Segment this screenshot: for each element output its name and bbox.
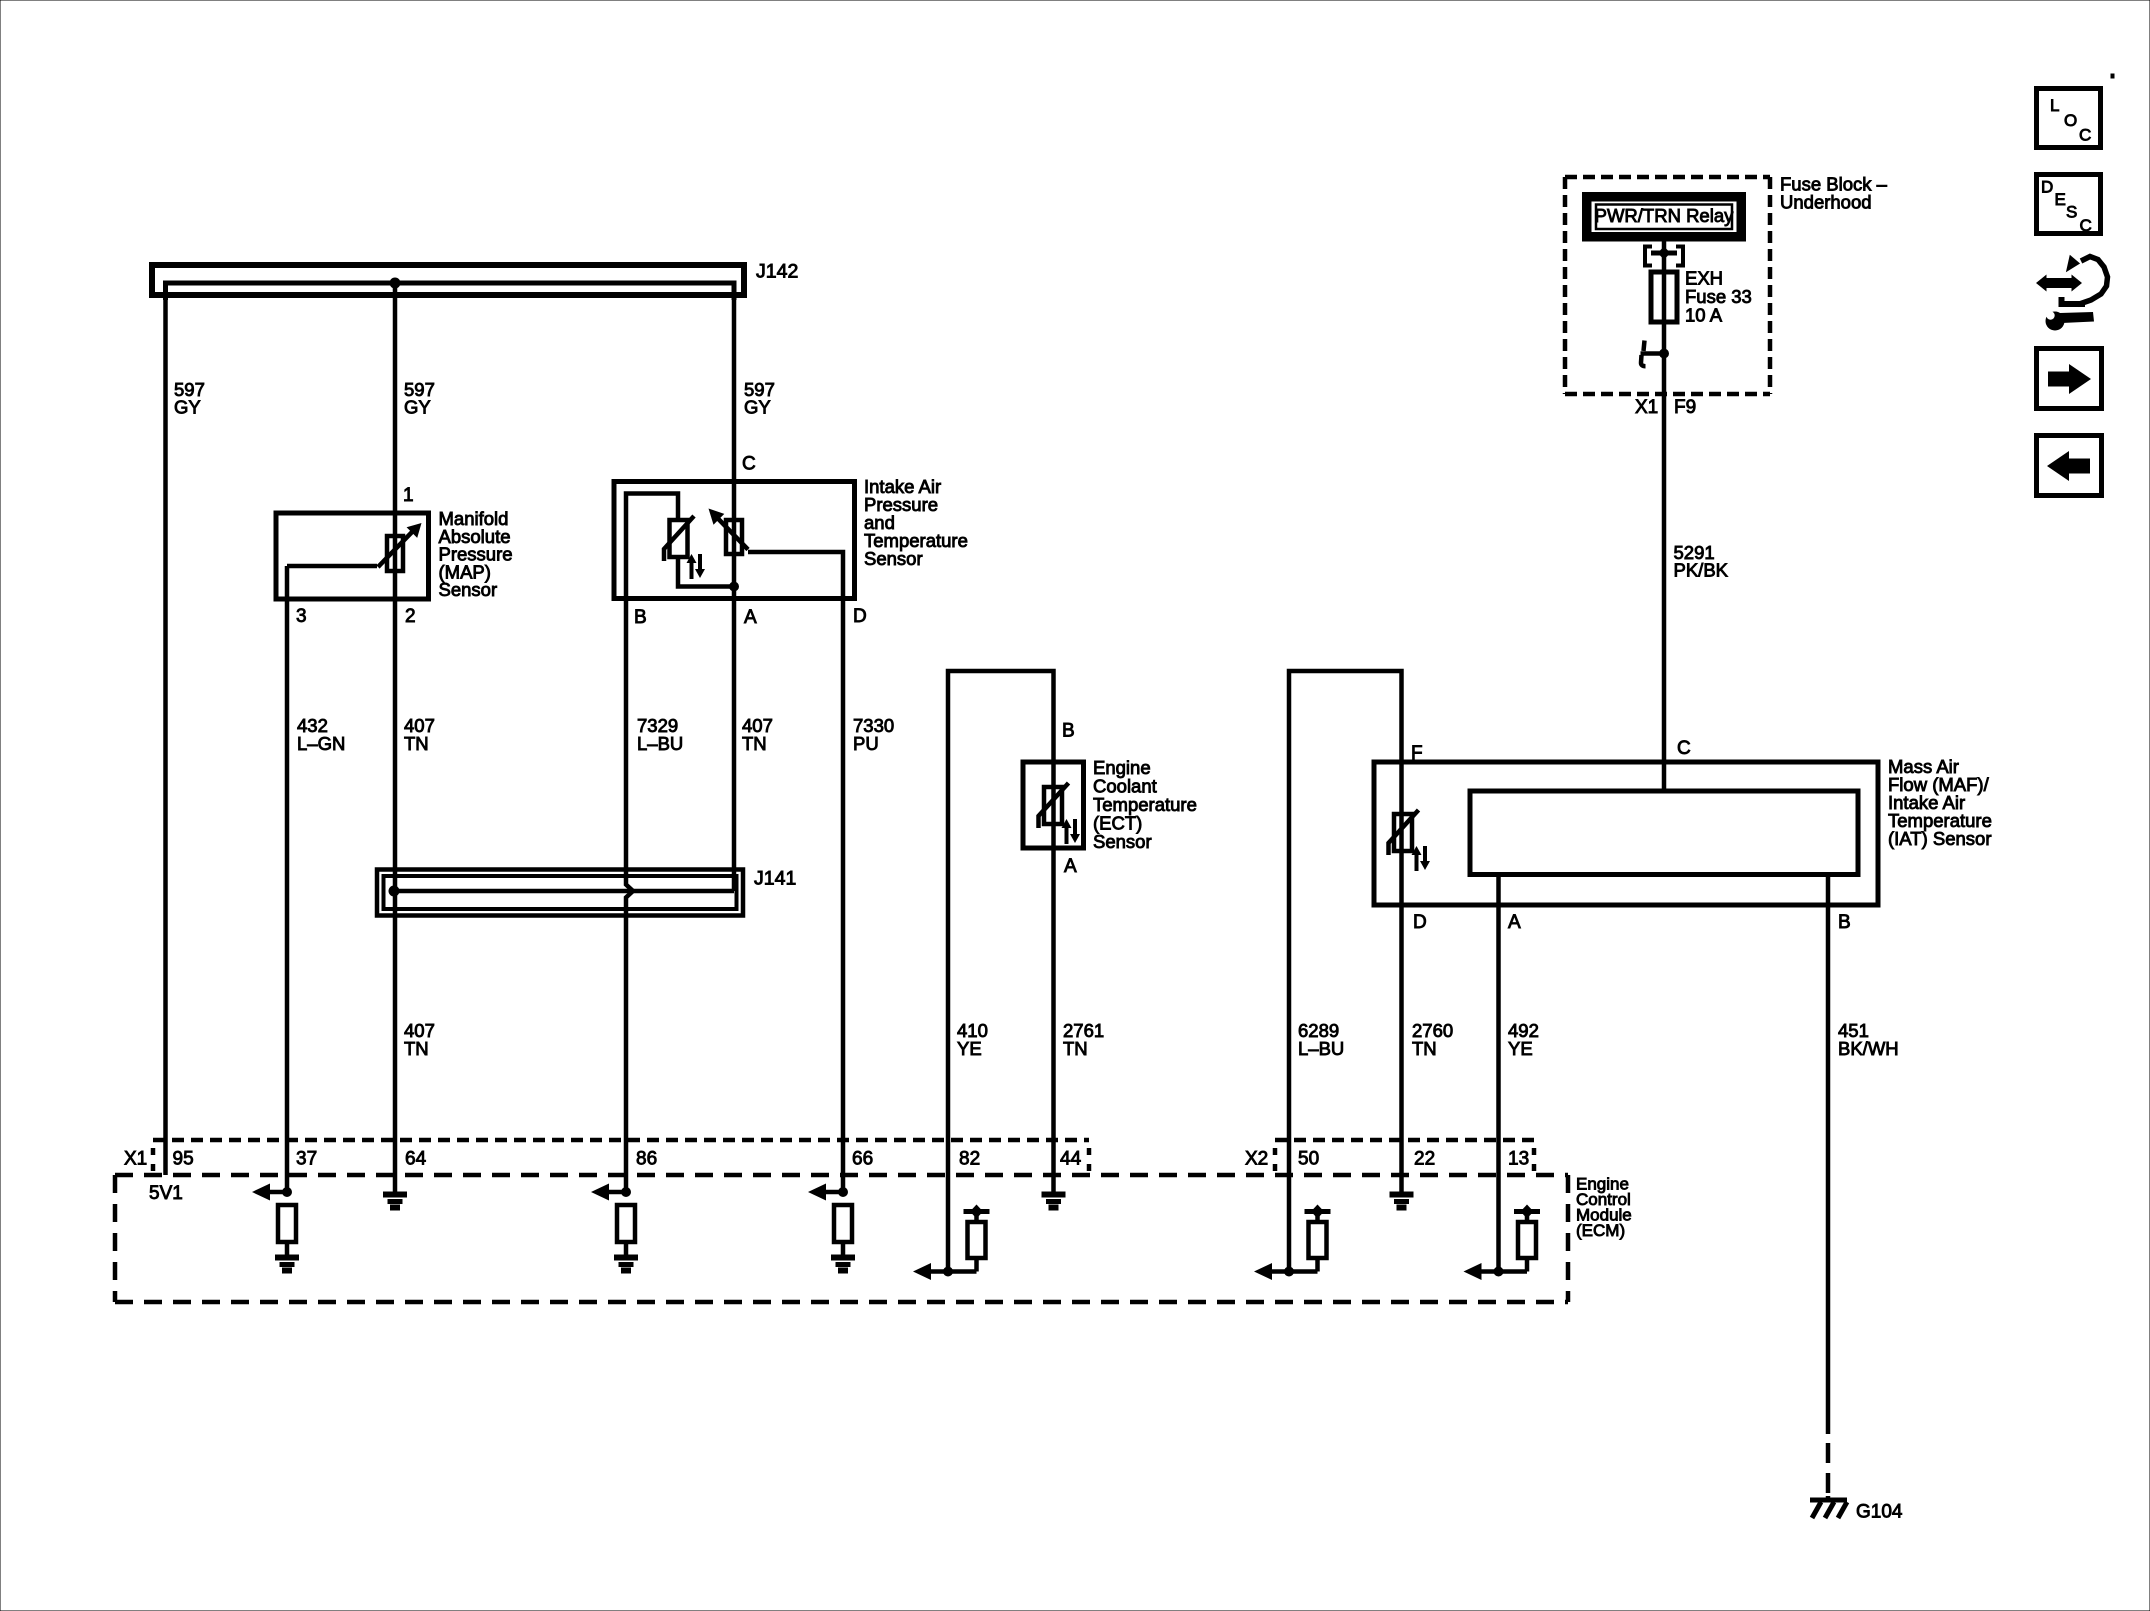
wire label 407 TN lower	[404, 1020, 435, 1059]
pin number 86	[636, 1149, 657, 1170]
MAP sensor box	[276, 513, 429, 599]
wire label 432 L-GN	[297, 715, 345, 754]
wire label 597 GY left	[174, 379, 205, 418]
svg-text:44: 44	[1060, 1149, 1082, 1170]
ECM ground X1-44	[1042, 1192, 1065, 1210]
pin label A (ECT)	[1064, 856, 1077, 877]
wire 410 YE / 2761 TN (ECM X1-82 loop to ECT sensor pin B, pin A to X1-44)	[948, 671, 1054, 1272]
svg-text:37: 37	[296, 1149, 317, 1170]
icon vehicle with arrow and wrench	[2036, 255, 2108, 331]
wire label 451 BK/WH	[1838, 1020, 1899, 1059]
wire 7329 L-BU (intake thermistor / pin B to ECM X1-86, hops over J141 bus)	[626, 494, 678, 1193]
connector label X1	[124, 1149, 147, 1170]
wire label 410 YE	[957, 1020, 988, 1059]
MAP sensor pressure transducer symbol	[287, 523, 422, 571]
ECM input X1-86 (arrow, resistor, ground)	[591, 1184, 638, 1274]
svg-text:J142: J142	[756, 261, 798, 283]
ECM annotation	[1576, 1175, 1632, 1241]
pin number 50	[1298, 1149, 1319, 1170]
svg-text:B: B	[1062, 721, 1075, 742]
ECM connector X2 dotted strip	[1275, 1140, 1534, 1171]
svg-text:A: A	[1508, 912, 1521, 933]
wire label 7329 L-BU	[637, 715, 683, 754]
wire label 407 TN (intake A)	[742, 715, 773, 754]
svg-text:D: D	[853, 606, 867, 627]
pin number 44	[1060, 1149, 1082, 1170]
pin number 22	[1414, 1149, 1435, 1170]
wire 432 L-GN (MAP pin 3 to ECM X1-37)	[285, 566, 290, 1192]
pin number 64	[405, 1149, 427, 1170]
fuse block label	[1780, 174, 1888, 213]
svg-text:86: 86	[636, 1149, 657, 1170]
wire label 2760 TN	[1412, 1020, 1453, 1059]
svg-text:597GY: 597GY	[174, 379, 205, 418]
Intake Air Pressure and Temperature sensor box	[614, 482, 855, 599]
connector label X1 F9	[1635, 397, 1696, 418]
intake sensor internal wire (thermistor bottom to A junction)	[678, 557, 734, 587]
ECM input X2-13 (arrow, pull-up resistor)	[1464, 1205, 1541, 1281]
icon back arrow box	[2037, 436, 2102, 496]
relay output terminal symbol	[1645, 247, 1683, 266]
svg-text:22: 22	[1414, 1149, 1435, 1170]
MAF/IAT sensor outer box	[1374, 762, 1878, 905]
intake sensor annotation	[864, 476, 968, 569]
svg-text:A: A	[1064, 856, 1077, 877]
svg-text:82: 82	[959, 1149, 980, 1170]
svg-text:EngineControlModule(ECM): EngineControlModule(ECM)	[1576, 1175, 1632, 1241]
connector terminal symbol at fuse block exit	[1641, 341, 1660, 367]
wire 597 GY (J142 to ECM X1-95)	[163, 283, 168, 1175]
svg-text:D: D	[2041, 178, 2053, 197]
ECM ground X1-64	[384, 1192, 407, 1210]
svg-text:A: A	[744, 607, 757, 628]
pin label 2 (MAP)	[405, 606, 416, 627]
MAF/IAT sensor annotation	[1888, 756, 1992, 849]
pin label A (MAF)	[1508, 912, 1521, 933]
wire 7330 PU (intake pressure sensor / pin D to ECM X1-66)	[748, 552, 843, 1192]
svg-text:95: 95	[173, 1149, 194, 1170]
wire label 5291 PK/BK	[1674, 542, 1729, 581]
svg-text:597GY: 597GY	[744, 379, 775, 418]
pin number 37	[296, 1149, 317, 1170]
icon speck	[2111, 74, 2114, 78]
ECM input X1-82 (arrow, pull-up resistor)	[913, 1205, 990, 1281]
junction dot on J142 bus	[390, 278, 401, 289]
pin number 13	[1508, 1149, 1529, 1170]
svg-text:66: 66	[852, 1149, 873, 1170]
wire 451 BK/WH (MAF pin B to ground G104)	[1826, 875, 1831, 1501]
connector label X2	[1245, 1149, 1268, 1170]
ECM dashed box	[115, 1175, 1568, 1302]
pin label B (ECT)	[1062, 721, 1075, 742]
wire label 597 GY right	[744, 379, 775, 418]
pin label 3 (MAP)	[296, 606, 307, 627]
intake sensor thermistor symbol	[664, 516, 694, 561]
svg-text:O: O	[2064, 111, 2077, 130]
wire 5291 inside fuse block (relay to MAF pin C)	[1662, 242, 1667, 792]
splice pack J142	[152, 261, 798, 301]
ECM input X2-50 (arrow, pull-up resistor)	[1254, 1205, 1331, 1281]
svg-text:S: S	[2066, 203, 2077, 222]
junction dot at intake sensor pin A node	[729, 582, 739, 592]
icon forward arrow box	[2037, 349, 2102, 409]
svg-text:J141: J141	[754, 868, 796, 890]
intake sensor thermistor arrows	[687, 554, 706, 579]
svg-text:B: B	[1838, 912, 1851, 933]
pin label D (intake)	[853, 606, 867, 627]
pin label F (MAF)	[1411, 743, 1423, 764]
pin label A (intake)	[744, 607, 757, 628]
icon DESC box	[2037, 175, 2101, 236]
pin label D (MAF)	[1413, 912, 1427, 933]
ECM input X1-66 (arrow, resistor, ground)	[808, 1184, 855, 1274]
MAF sensor thermistor symbol	[1389, 810, 1419, 855]
svg-text:597GY: 597GY	[404, 379, 435, 418]
svg-text:2: 2	[405, 606, 416, 627]
wire label 2761 TN	[1063, 1020, 1104, 1059]
junction dot on J141 bus	[389, 886, 400, 897]
svg-text:X1: X1	[1635, 397, 1658, 418]
svg-text:C: C	[742, 454, 756, 475]
svg-text:L: L	[2050, 96, 2059, 115]
wire 597 GY / 407 TN (J142 to Intake sensor pin C, pin A to J141)	[732, 283, 737, 891]
pin number 66	[852, 1149, 873, 1170]
junction dot at fuse block exit	[1659, 349, 1669, 359]
ground G104 chassis ground symbol	[1810, 1500, 1847, 1518]
ECT sensor thermistor arrows	[1062, 819, 1081, 844]
pin number 95	[173, 1149, 194, 1170]
net label 5V1	[149, 1183, 183, 1204]
svg-text:5V1: 5V1	[149, 1183, 183, 1204]
svg-text:1: 1	[403, 485, 414, 506]
svg-text:PWR/TRN Relay: PWR/TRN Relay	[1595, 205, 1735, 226]
pin label C (MAF)	[1677, 738, 1691, 759]
intake sensor pressure transducer symbol	[709, 509, 749, 555]
ECM connector X1 dotted strip	[153, 1140, 1089, 1171]
fuse label	[1685, 268, 1752, 326]
svg-text:13: 13	[1508, 1149, 1529, 1170]
svg-text:F9: F9	[1674, 397, 1696, 418]
wire 597 GY / 407 TN (J142 through MAP sensor to J141 and ECM X1-64)	[393, 283, 398, 1192]
wire label 407 TN upper	[404, 715, 435, 754]
svg-text:E: E	[2055, 190, 2066, 209]
pin label 1 (MAP)	[403, 485, 414, 506]
fuse block dashed box	[1565, 177, 1770, 394]
svg-text:G104: G104	[1856, 1502, 1903, 1523]
svg-text:Fuse Block –Underhood: Fuse Block –Underhood	[1780, 174, 1888, 213]
svg-text:6289L–BU: 6289L–BU	[1298, 1020, 1344, 1059]
svg-text:C: C	[1677, 738, 1691, 759]
pin number 82	[959, 1149, 980, 1170]
svg-text:D: D	[1413, 912, 1427, 933]
svg-text:B: B	[634, 607, 647, 628]
wire label 597 GY middle	[404, 379, 435, 418]
MAF/IAT sensor inner module box	[1470, 791, 1858, 875]
fuse EXH Fuse 33 10A symbol	[1651, 272, 1677, 322]
svg-text:3: 3	[296, 606, 307, 627]
ECM input X1-37 (arrow, resistor, ground)	[252, 1184, 299, 1274]
icon LOC box	[2037, 89, 2101, 148]
ECT sensor box	[1023, 762, 1084, 848]
svg-text:50: 50	[1298, 1149, 1319, 1170]
svg-text:X2: X2	[1245, 1149, 1268, 1170]
MAP sensor annotation	[439, 508, 513, 600]
ECT sensor annotation	[1093, 757, 1197, 852]
pin label B (MAF)	[1838, 912, 1851, 933]
svg-text:C: C	[2080, 216, 2092, 235]
wire 6289 L-BU / 2760 TN (ECM X2-50 loop to MAF pin F, pin D to X2-22)	[1289, 671, 1402, 1272]
wire label 7330 PU	[853, 715, 894, 754]
svg-text:64: 64	[405, 1149, 427, 1170]
pin label B (intake)	[634, 607, 647, 628]
wire 492 YE (MAF pin A to ECM X2-13)	[1496, 875, 1501, 1272]
ground label G104	[1856, 1502, 1903, 1523]
wire label 492 YE	[1508, 1020, 1539, 1059]
wire label 6289 L-BU	[1298, 1020, 1344, 1059]
ECM ground X2-22	[1390, 1192, 1413, 1210]
MAF sensor thermistor arrows	[1412, 846, 1431, 871]
PWR/TRN relay box	[1587, 197, 1742, 237]
svg-text:C: C	[2079, 126, 2091, 145]
splice pack J141	[377, 868, 796, 916]
pin label C (intake sensor)	[742, 454, 756, 475]
svg-text:7329L–BU: 7329L–BU	[637, 715, 683, 754]
ECT sensor thermistor symbol	[1039, 783, 1069, 828]
svg-text:X1: X1	[124, 1149, 147, 1170]
